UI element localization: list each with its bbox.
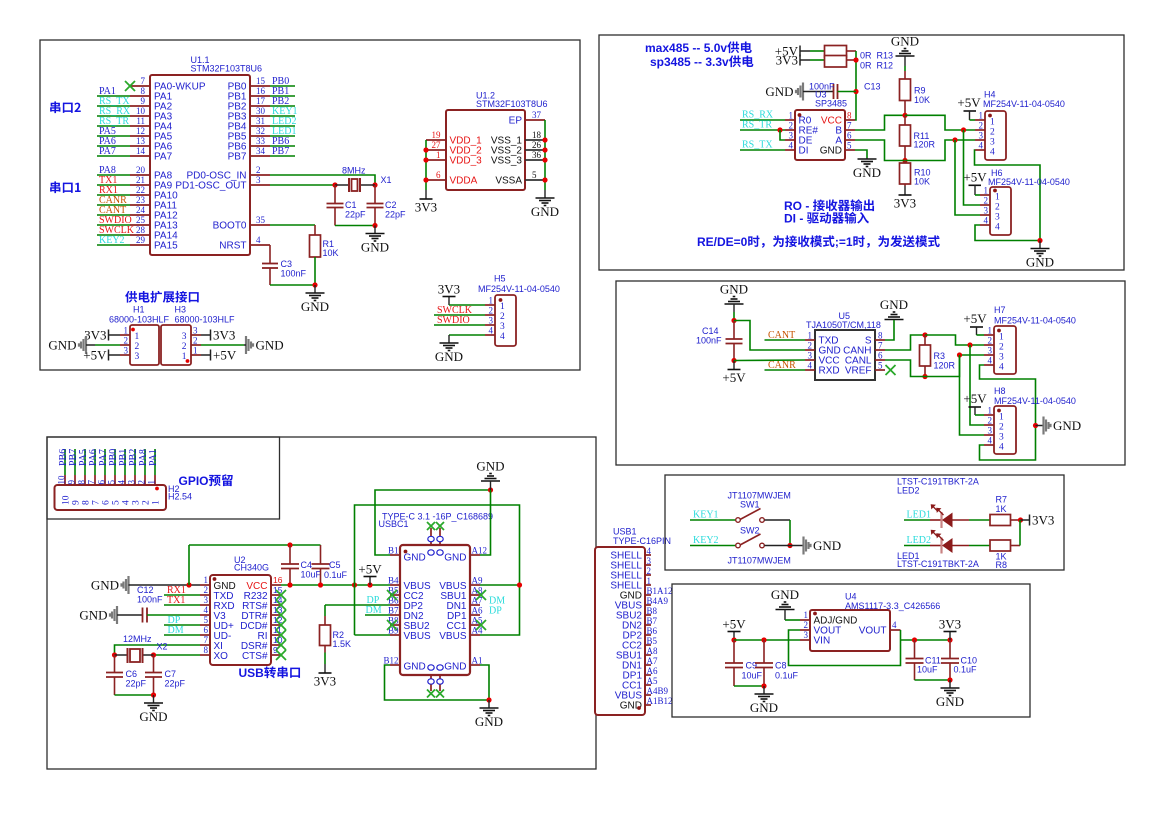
- junction: [287, 542, 292, 547]
- wire net SWDIO: [434, 324, 485, 326]
- svg-text:5: 5: [847, 141, 852, 151]
- svg-text:C4: C4: [301, 560, 313, 570]
- wire net B to headers: [905, 115, 975, 130]
- U2 pin 3 RXD: [200, 604, 210, 606]
- svg-text:A6: A6: [647, 666, 658, 676]
- U3 pin 3 DE: [785, 139, 795, 141]
- svg-text:28: 28: [136, 225, 146, 235]
- svg-text:PA7: PA7: [154, 152, 173, 163]
- svg-text:STM32F103T8U6: STM32F103T8U6: [476, 99, 548, 109]
- svg-text:3V3: 3V3: [438, 282, 460, 297]
- ground for U1.2: [544, 190, 546, 198]
- no-connect X on U2 pin 10: [276, 640, 286, 650]
- svg-text:3V3: 3V3: [314, 674, 336, 689]
- svg-text:KEY2: KEY2: [99, 235, 125, 246]
- svg-text:6: 6: [436, 170, 441, 180]
- wire C14 to U5 VCC pin: [734, 359, 805, 362]
- svg-text:B4: B4: [388, 576, 399, 586]
- svg-text:10uF: 10uF: [301, 570, 322, 580]
- svg-text:13: 13: [136, 136, 146, 146]
- USBC1 pin B5 CC2: [390, 594, 400, 596]
- USB1 pin B5 CC2: [645, 644, 651, 646]
- wire CANL to H7 pin3: [925, 355, 984, 377]
- svg-text:A1B12: A1B12: [647, 696, 673, 706]
- svg-text:5: 5: [532, 170, 537, 180]
- svg-text:R8: R8: [996, 560, 1008, 570]
- H4 pin 4: [975, 149, 985, 151]
- ground flag for U4 ADJ: [776, 609, 795, 611]
- wire H7 pin4 to ground: [980, 365, 1036, 460]
- junction: [372, 223, 377, 228]
- wire net B to H6 pin2: [964, 130, 981, 205]
- USBC1 pin A6 DP1: [470, 614, 480, 616]
- svg-text:BOOT0: BOOT0: [213, 221, 247, 232]
- svg-text:10uF: 10uF: [742, 671, 763, 681]
- svg-text:31: 31: [256, 116, 265, 126]
- svg-text:100nF: 100nF: [137, 595, 163, 605]
- svg-text:10: 10: [57, 475, 67, 485]
- junction: [352, 582, 357, 587]
- U1.2 pin 37 EP: [525, 119, 545, 121]
- svg-text:11: 11: [136, 116, 145, 126]
- svg-text:A9: A9: [472, 576, 483, 586]
- junction: [112, 652, 117, 657]
- H2 pin 9 wire net PB7: [74, 449, 76, 475]
- wire H5 pin1: [449, 304, 485, 306]
- svg-text:17: 17: [256, 96, 266, 106]
- H2 pin 4 wire net PB1: [124, 449, 126, 475]
- capacitor C9 10uF: [733, 640, 735, 663]
- U1.1 pin 3 PD1-OSC_OUT: [250, 184, 270, 186]
- U1.1 pin 12 PA5: [130, 135, 150, 137]
- USBC1 pin A12 GND: [470, 554, 480, 556]
- USBC1 pin B6 DP2: [390, 604, 400, 606]
- svg-text:3: 3: [135, 352, 140, 362]
- power flag 3V3 for H5: [448, 297, 450, 306]
- svg-text:12: 12: [136, 126, 145, 136]
- wire: [86, 344, 95, 346]
- svg-text:NRST: NRST: [219, 241, 246, 252]
- H4 pin1 mark: [988, 114, 992, 118]
- annotation serial port 1: [50, 181, 60, 193]
- junction: [542, 147, 547, 152]
- svg-text:C14: C14: [702, 326, 719, 336]
- svg-text:GND: GND: [880, 297, 908, 312]
- U1.1 pin 2 PD0-OSC_IN: [250, 174, 270, 176]
- svg-text:H1: H1: [133, 305, 145, 315]
- svg-text:1: 1: [999, 333, 1004, 343]
- wire net RS_TX: [97, 105, 130, 107]
- junction: [423, 177, 428, 182]
- U2 pin 8 XO: [200, 654, 210, 656]
- svg-text:6: 6: [878, 351, 883, 361]
- svg-text:XO: XO: [214, 651, 229, 662]
- wire CANL to H8 pin3: [960, 355, 985, 435]
- svg-text:PB7: PB7: [228, 152, 247, 163]
- junction: [902, 113, 907, 118]
- USB1 pin 2 SHELL: [645, 574, 651, 576]
- svg-text:1: 1: [152, 500, 162, 505]
- svg-text:B12: B12: [383, 656, 398, 666]
- capacitor C1 22pF: [334, 185, 336, 204]
- junction: [423, 157, 428, 162]
- svg-text:C9: C9: [746, 661, 758, 671]
- svg-text:29: 29: [136, 235, 146, 245]
- svg-text:8: 8: [847, 111, 852, 121]
- capacitor C12 100nF: [117, 614, 143, 616]
- svg-text:SWDIO: SWDIO: [437, 315, 470, 326]
- wire SW1 to SW2: [765, 519, 791, 521]
- USBC1 pin B12 GND: [390, 664, 400, 666]
- svg-text:EP: EP: [509, 116, 523, 127]
- H5 pin1 mark: [499, 298, 503, 302]
- wire RE to DE: [780, 130, 785, 140]
- svg-text:PB7: PB7: [272, 146, 289, 157]
- svg-text:A4: A4: [472, 626, 483, 636]
- svg-text:4: 4: [990, 148, 995, 158]
- svg-text:25: 25: [136, 215, 146, 225]
- H2 pin 6 wire net PA7: [104, 449, 106, 475]
- svg-text:7: 7: [847, 121, 852, 131]
- wire A9 VBUS: [480, 584, 520, 586]
- H2 pin 3 wire net PB2: [134, 449, 136, 475]
- svg-text:C6: C6: [126, 669, 138, 679]
- wire net RX1: [97, 194, 130, 196]
- svg-text:1: 1: [489, 296, 494, 306]
- resistor R8 1K: [989, 545, 991, 547]
- U1.2 pin 5 VSSA: [525, 179, 545, 181]
- svg-text:3: 3: [995, 213, 1000, 223]
- U4 pin 1 ADJ/GND: [800, 619, 810, 621]
- wire output caps ground: [915, 679, 951, 681]
- U1.1 pin 35 BOOT0: [250, 224, 270, 226]
- wire net PA6: [97, 145, 130, 147]
- svg-text:16: 16: [273, 575, 283, 585]
- svg-text:GND: GND: [476, 459, 504, 474]
- svg-text:3V3: 3V3: [939, 617, 961, 632]
- H6 pin 3: [980, 214, 990, 216]
- U1.1 pin 23 PA11: [130, 204, 150, 206]
- svg-text:H7: H7: [994, 305, 1006, 315]
- svg-text:C7: C7: [165, 669, 177, 679]
- svg-text:GND: GND: [91, 578, 119, 593]
- wire: [201, 334, 211, 336]
- H7 pin 3: [984, 354, 994, 356]
- svg-text:X2: X2: [157, 642, 168, 652]
- ground under crystal caps: [153, 695, 155, 703]
- H3 pin 2: [191, 344, 201, 346]
- svg-text:8: 8: [204, 645, 209, 655]
- U1.1 pin 11 PA4: [130, 125, 150, 127]
- U2 pin 5 UD+: [200, 624, 210, 626]
- USBC1 pin A9 VBUS: [470, 584, 480, 586]
- svg-text:DM: DM: [168, 625, 184, 636]
- junction: [542, 177, 547, 182]
- svg-text:9: 9: [72, 500, 82, 505]
- resistor R10 10K: [904, 161, 906, 164]
- crystal X2 12MHz: [115, 654, 128, 656]
- svg-text:4: 4: [808, 361, 813, 371]
- U5 pin 4 RXD: [805, 369, 815, 371]
- power flag 3V3 right: [210, 330, 212, 341]
- wire net PB1: [270, 95, 295, 97]
- svg-text:1: 1: [436, 150, 441, 160]
- svg-text:1: 1: [808, 331, 813, 341]
- svg-text:100nF: 100nF: [281, 269, 307, 279]
- svg-text:A7: A7: [472, 596, 483, 606]
- wire: [109, 334, 121, 336]
- power flag 3V3 under R10: [904, 186, 906, 195]
- H4 pin 1: [975, 119, 985, 121]
- U1.1 pin 24 PA12: [130, 214, 150, 216]
- svg-text:B5: B5: [647, 636, 658, 646]
- no-connect X on U1.1 pin 7: [125, 81, 135, 91]
- svg-text:68000-103HLF: 68000-103HLF: [109, 315, 170, 325]
- svg-text:24: 24: [136, 205, 146, 215]
- svg-text:26: 26: [532, 140, 542, 150]
- capacitor C6 22pF: [114, 655, 116, 673]
- wire B9 VBUS: [355, 634, 391, 636]
- svg-text:21: 21: [136, 175, 145, 185]
- U3 pin 6 A: [845, 139, 855, 141]
- svg-text:A6: A6: [472, 606, 483, 616]
- svg-text:1: 1: [995, 193, 1000, 203]
- svg-text:MF254V-11-04-0540: MF254V-11-04-0540: [988, 177, 1070, 187]
- junction: [922, 374, 927, 379]
- wire: [109, 354, 121, 356]
- MCU U1.1: [150, 75, 250, 255]
- svg-text:H4: H4: [984, 90, 996, 100]
- svg-text:DI: DI: [799, 146, 809, 157]
- wire net PB0: [270, 85, 295, 87]
- H1 pin 1: [120, 334, 130, 336]
- svg-text:3V3: 3V3: [84, 328, 106, 343]
- power flag +5V right: [210, 350, 212, 361]
- power flag 3V3 for U1.2: [425, 190, 427, 199]
- svg-text:MF254V-11-04-0540: MF254V-11-04-0540: [994, 316, 1076, 326]
- svg-text:2: 2: [984, 196, 989, 206]
- U1.1 pin 10 PA3: [130, 115, 150, 117]
- svg-text:4: 4: [979, 141, 984, 151]
- junction: [912, 637, 917, 642]
- U2 pin 15 R232: [271, 594, 281, 596]
- U1.1 pin 28 PA14: [130, 234, 150, 236]
- annotation power expansion header: [125, 291, 137, 303]
- USBC1 pin A7 DN1: [470, 604, 480, 606]
- wire net RS_TX: [740, 149, 785, 151]
- svg-text:9: 9: [141, 96, 146, 106]
- svg-text:GND: GND: [853, 165, 881, 180]
- U2 pin 6 UD-: [200, 634, 210, 636]
- U5 pin 8 S: [875, 339, 885, 341]
- svg-text:30: 30: [256, 106, 266, 116]
- junction: [947, 637, 952, 642]
- power flag +5V for H8: [969, 406, 982, 408]
- svg-text:1: 1: [193, 346, 198, 356]
- diode LED1 (bottom): [940, 538, 942, 554]
- svg-text:3: 3: [990, 138, 995, 148]
- USB1 pin 3 SHELL: [645, 564, 651, 566]
- svg-text:RE/DE=0: RE/DE=0: [697, 235, 748, 249]
- svg-text:B1: B1: [388, 546, 399, 556]
- svg-text:+5V: +5V: [213, 348, 237, 363]
- svg-text:GND: GND: [1053, 418, 1081, 433]
- USB1 pin 4 SHELL: [645, 554, 651, 556]
- svg-text:;=1: ;=1: [835, 235, 853, 249]
- svg-text:TJA1050T/CM,118: TJA1050T/CM,118: [806, 320, 881, 330]
- U5 pin 2 GND: [805, 349, 815, 351]
- USBC1 pin A8 SBU1: [470, 594, 480, 596]
- svg-text:7: 7: [92, 500, 102, 505]
- svg-text:GND: GND: [813, 538, 841, 553]
- svg-text:C5: C5: [329, 560, 341, 570]
- ground flag right: [245, 336, 247, 354]
- svg-text:68000-103HLF: 68000-103HLF: [175, 315, 236, 325]
- power flag +5V: [799, 46, 801, 57]
- svg-text:4: 4: [999, 363, 1004, 373]
- svg-text:GND: GND: [301, 299, 329, 314]
- power flag +5V under C14: [733, 361, 735, 370]
- svg-text:GND: GND: [531, 204, 559, 219]
- svg-text:5: 5: [107, 480, 117, 485]
- svg-text:MF254V-11-04-0540: MF254V-11-04-0540: [983, 99, 1065, 109]
- wire BOOT0 to R1: [270, 224, 315, 226]
- U1.1 pin 14 PA7: [130, 155, 150, 157]
- junction: [423, 147, 428, 152]
- svg-text:GND: GND: [891, 34, 919, 49]
- H2 pin1 mark: [155, 487, 159, 491]
- svg-text:2: 2: [124, 336, 129, 346]
- header H2 GPIO: [55, 485, 167, 510]
- svg-text:RS_TX: RS_TX: [742, 140, 773, 151]
- svg-text:GND: GND: [720, 282, 748, 297]
- wire net PA7: [97, 155, 130, 157]
- power flag +5V left: [108, 350, 110, 361]
- svg-text:0R: 0R: [860, 51, 872, 61]
- svg-text:TX1: TX1: [167, 595, 185, 606]
- svg-text:2: 2: [789, 121, 794, 131]
- H8 pin 3: [984, 434, 994, 436]
- svg-text:R9: R9: [914, 86, 926, 96]
- power flag +5V: [369, 577, 371, 586]
- svg-text:VDD_3: VDD_3: [450, 156, 483, 167]
- capacitor C8 0.1uF: [763, 640, 765, 663]
- wire: [970, 119, 976, 121]
- svg-text:KEY1: KEY1: [693, 510, 719, 521]
- svg-text:3: 3: [500, 322, 505, 332]
- junction: [186, 582, 191, 587]
- resistor R12 0R: [825, 56, 847, 68]
- svg-text:PA7: PA7: [99, 146, 116, 157]
- wire VOUT rail to 3V3: [901, 639, 951, 641]
- no-connect X on U2 pin 12: [276, 620, 286, 630]
- svg-text:DP: DP: [489, 606, 502, 617]
- U1.1 pin 30 PB3: [250, 115, 270, 117]
- junction: [151, 692, 156, 697]
- U1.1 pin 32 PB5: [250, 135, 270, 137]
- no-connect X on USBC1 A5: [476, 620, 486, 630]
- junction: [902, 158, 907, 163]
- svg-text:PD1-OSC_OUT: PD1-OSC_OUT: [175, 181, 246, 192]
- svg-text:C2: C2: [385, 200, 397, 210]
- wire XO to crystal: [154, 654, 201, 656]
- svg-text:PA1: PA1: [148, 449, 159, 466]
- junction: [853, 89, 858, 94]
- svg-text:C3: C3: [281, 259, 293, 269]
- capacitor C4 10uF: [289, 545, 291, 564]
- no-connect X on U2 pin 14: [276, 600, 286, 610]
- svg-text:SW1: SW1: [740, 500, 760, 510]
- U5 pin 6 CANL: [875, 359, 885, 361]
- wire U2 pin1 ground: [129, 584, 201, 586]
- svg-text:4: 4: [256, 235, 261, 245]
- H6 pin 4: [980, 224, 990, 226]
- USBC1 shell pin circles top inside: [428, 550, 434, 555]
- wire: [885, 320, 894, 340]
- wire H5 pin4 ground: [449, 334, 485, 336]
- resistor R2 1.5K pullup: [324, 605, 326, 616]
- wire CANH to H8 pin2: [970, 345, 984, 425]
- node X1 right: [372, 182, 377, 187]
- svg-text:10: 10: [136, 106, 146, 116]
- svg-text:4: 4: [789, 141, 794, 151]
- svg-text:VDDA: VDDA: [450, 176, 478, 187]
- U1.1 pin 4 NRST: [250, 244, 270, 246]
- svg-text:C12: C12: [137, 585, 154, 595]
- wire VCC rail +5V: [281, 584, 390, 586]
- svg-text:2: 2: [808, 341, 813, 351]
- junction: [761, 637, 766, 642]
- U3 pin 5 GND: [845, 149, 855, 151]
- U2 pin 7 XI: [200, 644, 210, 646]
- svg-text:JT1107MWJEM: JT1107MWJEM: [728, 556, 791, 566]
- svg-text:B4A9: B4A9: [647, 596, 669, 606]
- H6 pin 2: [980, 204, 990, 206]
- svg-text:1: 1: [804, 610, 809, 620]
- wire net RS_RX: [97, 115, 130, 117]
- no-connect X on U2 pin 11: [276, 630, 286, 640]
- ground flag left: [85, 336, 87, 354]
- section frame CAN: [616, 281, 1125, 465]
- wire net DM to USBC: [365, 614, 390, 616]
- wire: [800, 59, 810, 61]
- ground flag for C12: [116, 606, 118, 624]
- svg-text:R12: R12: [877, 61, 894, 71]
- ground flag above R9: [896, 55, 915, 57]
- U1.1 pin 7 PA0-WKUP: [130, 85, 150, 87]
- USB1 pin 1 SHELL: [645, 584, 651, 586]
- wire net KEY1: [690, 519, 736, 521]
- H3 pin 1: [191, 354, 201, 356]
- wire net SWCLK: [97, 234, 130, 236]
- U1.2 pin 26 VSS_2: [525, 149, 545, 151]
- svg-text:5: 5: [878, 361, 883, 371]
- USBC1 pin B7 DN2: [390, 614, 400, 616]
- svg-text:R7: R7: [996, 495, 1008, 505]
- svg-text:4: 4: [984, 216, 989, 226]
- svg-text:CANR: CANR: [768, 360, 796, 371]
- svg-text:4: 4: [995, 223, 1000, 233]
- wire net RS_RX: [740, 119, 785, 121]
- U5 pin 3 VCC: [805, 359, 815, 361]
- U2 pin 1 GND: [200, 584, 210, 586]
- svg-text:KEY2: KEY2: [693, 535, 719, 546]
- wire C3 to R1 ground: [270, 284, 315, 286]
- svg-text:7: 7: [204, 635, 209, 645]
- svg-text:3: 3: [193, 326, 198, 336]
- junction: [542, 137, 547, 142]
- section frame power: [672, 584, 1030, 717]
